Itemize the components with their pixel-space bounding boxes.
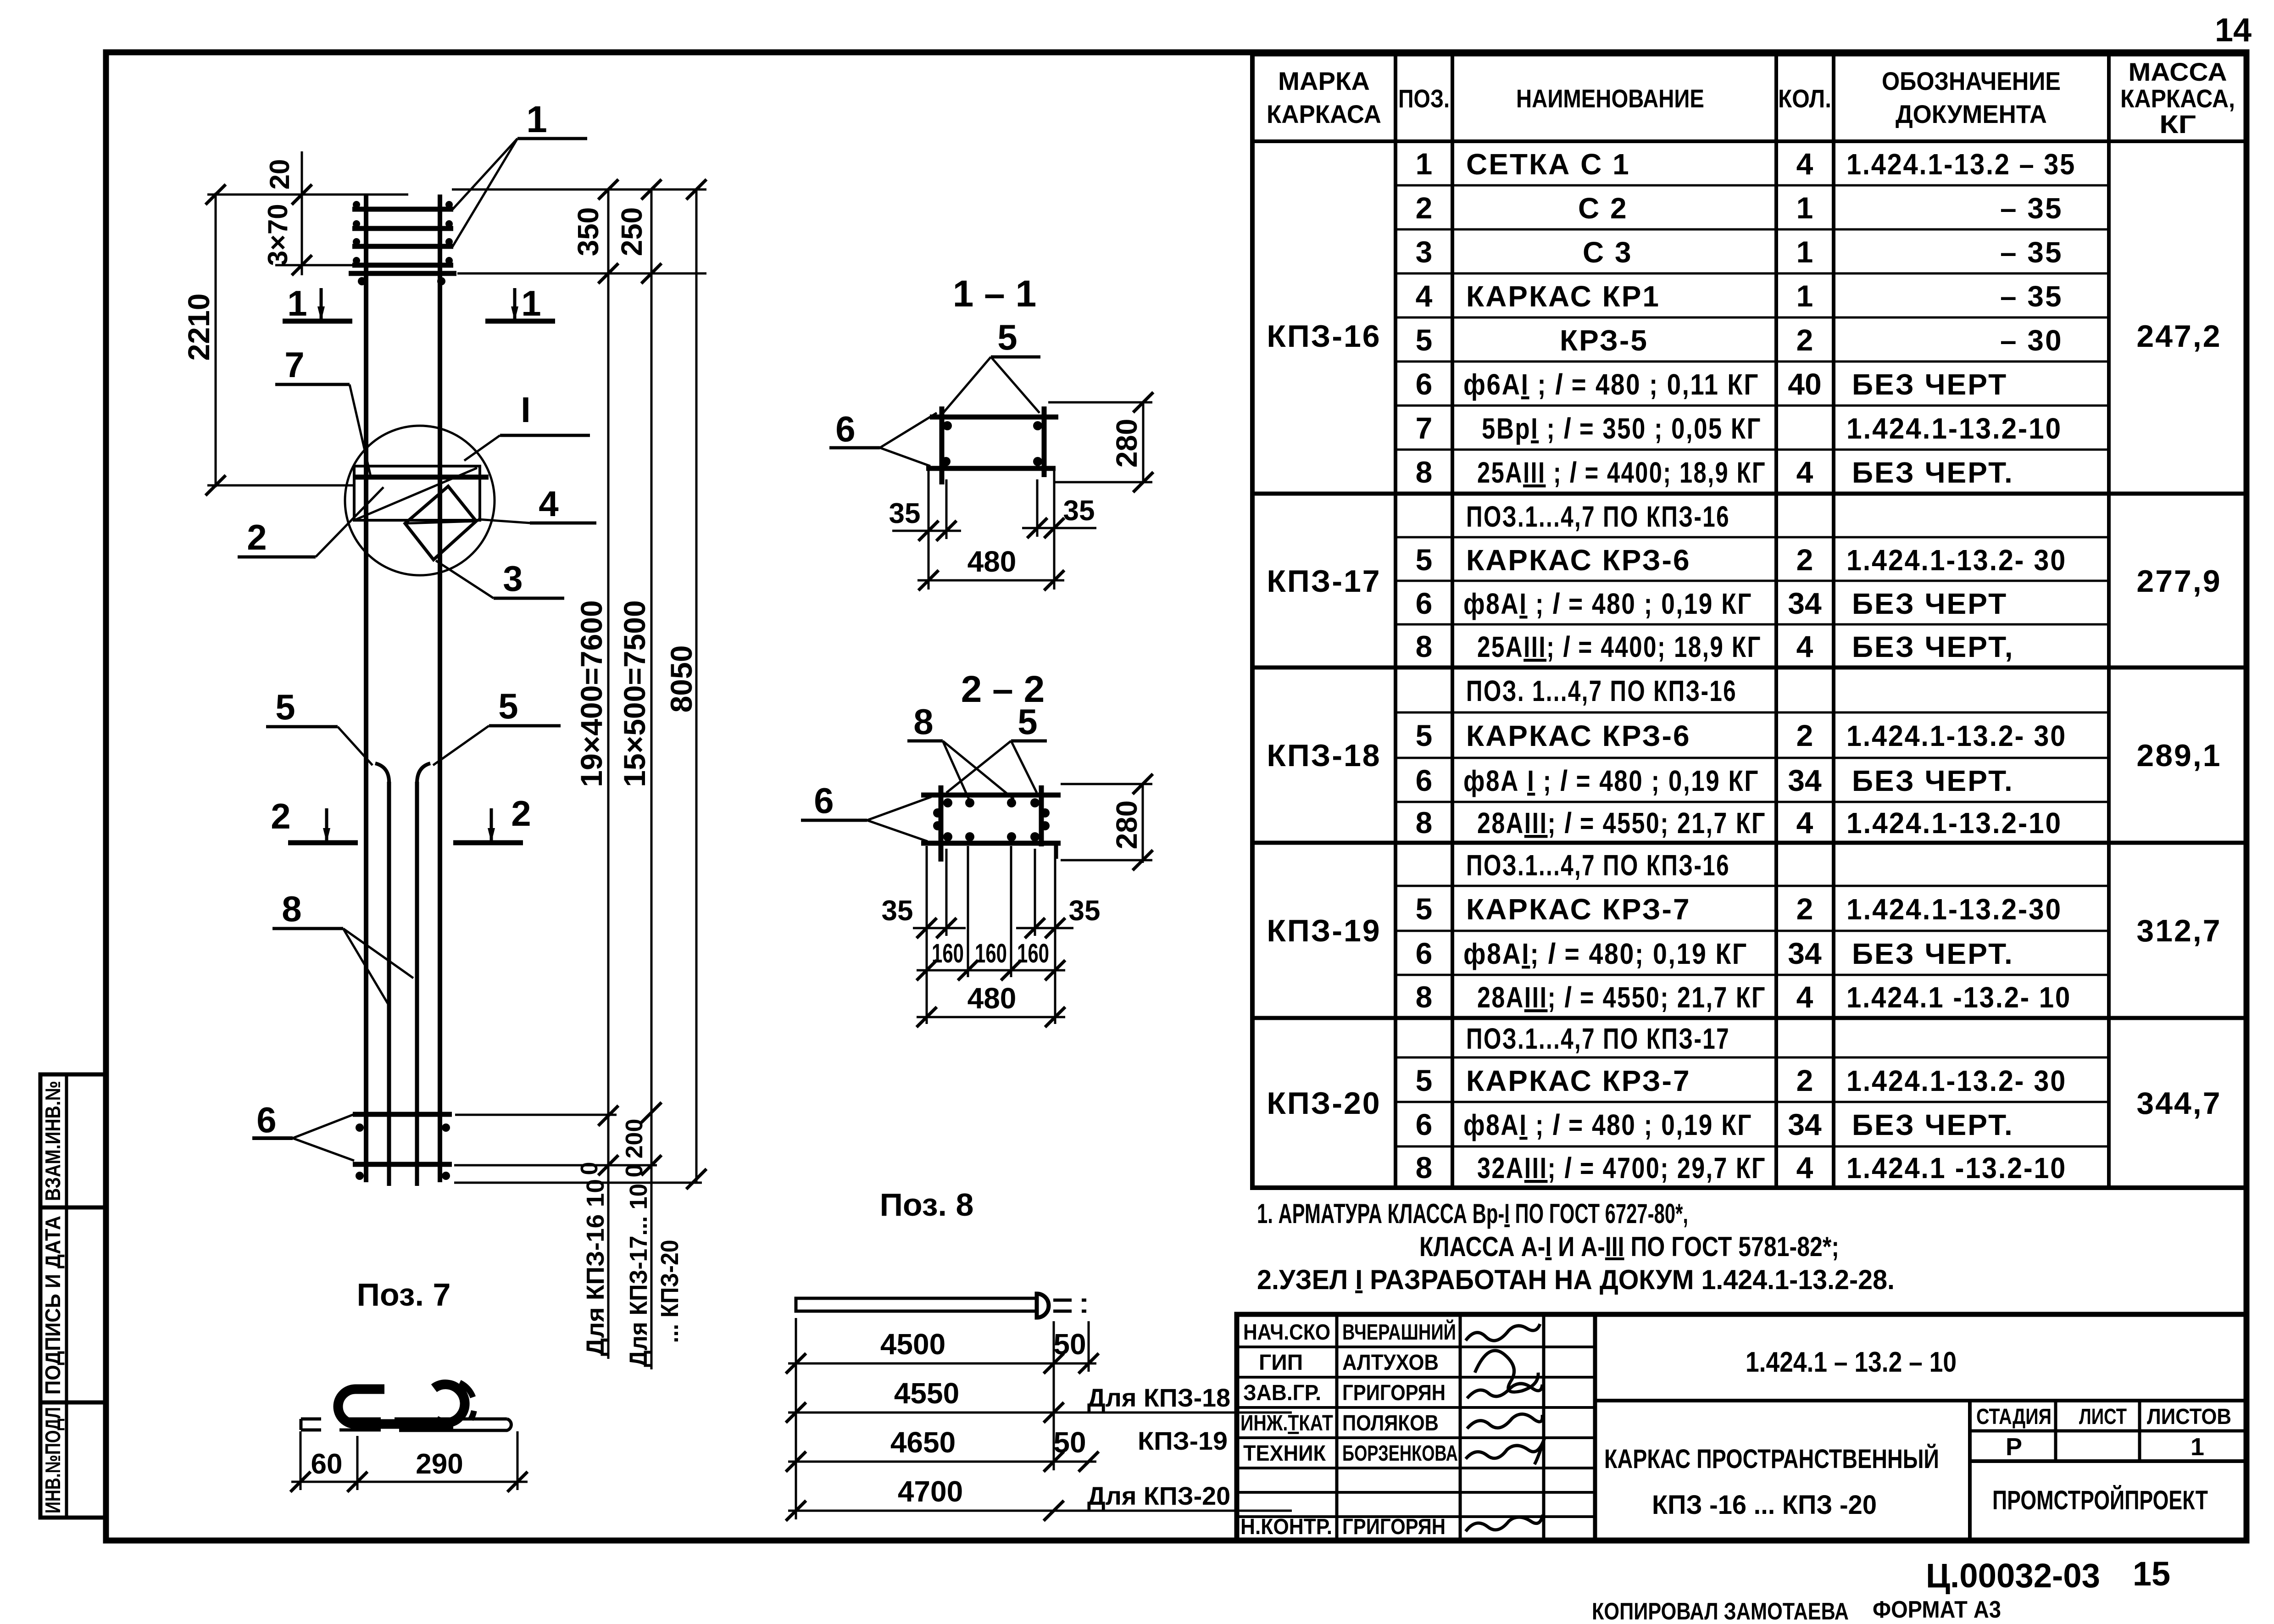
label 7 with leader [275,345,371,476]
svg-text:ф6АI ; l = 480 ; 0,11 КГ: ф6АI ; l = 480 ; 0,11 КГ [1463,368,1759,401]
svg-text:5: 5 [1017,701,1037,742]
section 1-1 stirrup frame [926,406,1058,484]
column elevation: main vertical bars [366,195,440,1182]
svg-text:6: 6 [1416,1107,1433,1141]
svg-text:1.424.1-13.2- 30: 1.424.1-13.2- 30 [1846,1064,2067,1097]
svg-text:НАЧ.СКО: НАЧ.СКО [1243,1320,1330,1345]
svg-text:ПОЗ.: ПОЗ. [1398,84,1450,113]
svg-text:3×70: 3×70 [262,204,293,266]
svg-text:2: 2 [271,796,290,836]
svg-text:5: 5 [1416,1063,1433,1097]
svg-text:5: 5 [1416,718,1433,752]
svg-text:Ц.00032-03: Ц.00032-03 [1926,1557,2100,1595]
svg-text:КПЗ-18: КПЗ-18 [1267,738,1381,773]
svg-text:5: 5 [1416,323,1433,357]
svg-text:1: 1 [1796,235,1813,269]
section mark 1 right [485,283,555,323]
section 2-2 labels 8 and 5 [907,701,1047,799]
svg-text:2: 2 [1796,1063,1813,1097]
svg-text:200: 200 [621,1119,648,1159]
svg-text:ПОЗ.1...4,7 ПО КПЗ-16: ПОЗ.1...4,7 ПО КПЗ-16 [1466,500,1730,533]
pos 8 dimension ladder [786,1318,1292,1521]
svg-text:МАРКА: МАРКА [1278,67,1370,95]
svg-text:БЕЗ ЧЕРТ.: БЕЗ ЧЕРТ. [1852,937,2014,970]
svg-text:ФОРМАТ А3: ФОРМАТ А3 [1873,1596,2001,1623]
svg-text:БЕЗ ЧЕРТ.: БЕЗ ЧЕРТ. [1852,1108,2014,1141]
svg-text:ЛИСТОВ: ЛИСТОВ [2147,1405,2231,1429]
dim line 350 / 19x400=7600 [572,179,618,1359]
svg-text:КПЗ-19: КПЗ-19 [1138,1426,1228,1455]
svg-text:1: 1 [1796,191,1813,225]
svg-text:4: 4 [1796,980,1813,1014]
wide bar at 350 level [349,273,456,285]
section 1-1 dims 35 [889,471,1096,590]
svg-text:2: 2 [511,793,531,834]
svg-text:19×400=7600: 19×400=7600 [574,600,608,787]
svg-text:БЕЗ ЧЕРТ,: БЕЗ ЧЕРТ, [1852,630,2014,663]
svg-text:1: 1 [1416,147,1433,181]
section 1-1 dim 480 [917,545,1064,590]
svg-text:280: 280 [1110,419,1143,468]
svg-text:1: 1 [526,99,547,140]
svg-text:КАРКАС КР1: КАРКАС КР1 [1466,280,1660,313]
svg-text:8: 8 [1416,806,1433,840]
left margin stamp strip [40,1074,106,1518]
svg-text:5: 5 [997,317,1017,357]
svg-text:3: 3 [1416,235,1433,269]
svg-text:0: 0 [621,1164,648,1178]
table header texts [1267,57,2235,139]
svg-text:АЛТУХОВ: АЛТУХОВ [1342,1351,1439,1375]
svg-text:4500: 4500 [880,1328,945,1361]
svg-text:КАРКАС КРЗ-6: КАРКАС КРЗ-6 [1466,719,1691,752]
svg-text:8050: 8050 [664,645,698,713]
svg-text:480: 480 [967,982,1017,1015]
svg-text:– 35: – 35 [2000,236,2063,269]
svg-text:32АIII; l = 4700; 29,7 КГ: 32АIII; l = 4700; 29,7 КГ [1477,1151,1766,1185]
svg-text:160: 160 [932,939,964,968]
svg-text:34: 34 [1788,586,1822,620]
svg-text:35: 35 [889,498,921,529]
label I with leader [464,389,590,461]
svg-text:ф8А I ; l = 480 ; 0,19 КГ: ф8А I ; l = 480 ; 0,19 КГ [1463,764,1759,797]
svg-text:40: 40 [1788,367,1821,401]
svg-text:1: 1 [287,283,307,323]
dim line 8050 [664,179,706,1189]
svg-text:480: 480 [967,545,1017,578]
label 4 with leader [478,484,596,524]
label 2 with leader [238,487,384,557]
svg-text:1.424.1-13.2-30: 1.424.1-13.2-30 [1846,893,2062,926]
svg-text:Для КПЗ-18: Для КПЗ-18 [1087,1383,1230,1412]
svg-text:50: 50 [1053,1328,1086,1361]
svg-text:344,7: 344,7 [2136,1086,2221,1121]
svg-text:1.424.1-13.2-10: 1.424.1-13.2-10 [1846,806,2062,840]
svg-text:2: 2 [1796,543,1813,577]
svg-text:1.424.1 – 13.2 – 10: 1.424.1 – 13.2 – 10 [1746,1346,1957,1378]
svg-text:280: 280 [1110,801,1143,850]
svg-text:КАРКАСА: КАРКАСА [1267,100,1381,128]
section 2-2 dim 480 [917,982,1065,1027]
svg-text:КАРКАС КРЗ-6: КАРКАС КРЗ-6 [1466,544,1691,577]
svg-text:ф8АI ; l = 480 ; 0,19 КГ: ф8АI ; l = 480 ; 0,19 КГ [1463,1108,1752,1141]
svg-text:4: 4 [539,484,558,524]
svg-text:Н.КОНТР.: Н.КОНТР. [1240,1515,1332,1539]
svg-text:ИНВ.№ПОДЛ: ИНВ.№ПОДЛ [41,1407,65,1513]
title block grid [1237,1314,2246,1540]
svg-text:247,2: 247,2 [2136,319,2221,354]
table pos and qty column digits [1416,147,1822,1185]
svg-text:СТАДИЯ: СТАДИЯ [1976,1405,2052,1429]
svg-text:4: 4 [1796,147,1813,181]
svg-text:60: 60 [311,1448,343,1480]
svg-text:КПЗ-17: КПЗ-17 [1267,564,1381,599]
svg-text:2210: 2210 [182,294,216,361]
detail circle I [345,426,495,575]
svg-text:БЕЗ ЧЕРТ.: БЕЗ ЧЕРТ. [1852,456,2014,489]
svg-text:ОБОЗНАЧЕНИЕ: ОБОЗНАЧЕНИЕ [1882,67,2061,95]
svg-text:ВЗАМ.ИНВ.№: ВЗАМ.ИНВ.№ [41,1081,65,1201]
svg-text:КПЗ-20: КПЗ-20 [1267,1086,1381,1121]
svg-text:Поз. 8: Поз. 8 [880,1187,974,1223]
svg-text:50: 50 [1053,1426,1086,1459]
svg-text:290: 290 [416,1448,463,1480]
svg-text:7: 7 [1416,411,1433,445]
svg-text:8: 8 [1416,455,1433,489]
svg-text:14: 14 [2215,12,2252,49]
svg-text:5: 5 [1416,543,1433,577]
svg-text:... КПЗ-20: ... КПЗ-20 [656,1240,684,1343]
svg-text:СЕТКА С 1: СЕТКА С 1 [1466,148,1630,181]
svg-text:4: 4 [1796,1151,1813,1185]
page number top right [2215,12,2252,49]
svg-text:ПОЗ.1...4,7 ПО КПЗ-17: ПОЗ.1...4,7 ПО КПЗ-17 [1466,1022,1730,1055]
right dim extension lines [452,189,706,1183]
section 2-2 dim 280 [1061,774,1153,870]
title block name [1604,1444,1939,1520]
bottom annotations [1592,1555,2170,1624]
svg-text:Для КПЗ-16 10: Для КПЗ-16 10 [582,1179,609,1356]
table mark and mass column texts [1267,319,2221,1121]
svg-text:1.424.1-13.2- 30: 1.424.1-13.2- 30 [1846,719,2067,752]
svg-text:8: 8 [1416,1151,1433,1185]
pos 8 bar drawing [796,1294,1086,1318]
svg-text:2.УЗЕЛ I РАЗРАБОТАН НА ДОКУМ 1: 2.УЗЕЛ I РАЗРАБОТАН НА ДОКУМ 1.424.1-13.… [1257,1264,1895,1295]
svg-text:ПОДПИСЬ И ДАТА: ПОДПИСЬ И ДАТА [41,1216,65,1395]
svg-text:8: 8 [913,701,933,742]
svg-text:1.424.1-13.2-10: 1.424.1-13.2-10 [1846,412,2062,445]
svg-text:1 – 1: 1 – 1 [953,273,1036,315]
svg-text:1.424.1-13.2 – 35: 1.424.1-13.2 – 35 [1846,148,2076,181]
svg-text:8: 8 [1416,980,1433,1014]
svg-text:1.424.1 -13.2- 10: 1.424.1 -13.2- 10 [1846,981,2071,1014]
table name column texts [1463,148,1766,1185]
svg-text:– 30: – 30 [2000,324,2063,357]
section 2-2 title [961,668,1045,710]
pos 8 detail title [880,1187,974,1223]
svg-text:ВЧЕРАШНИЙ: ВЧЕРАШНИЙ [1342,1319,1456,1345]
svg-text:КОПИРОВАЛ ЗАМОТАЕВА: КОПИРОВАЛ ЗАМОТАЕВА [1592,1598,1849,1624]
svg-text:Для КПЗ-17... 10: Для КПЗ-17... 10 [625,1184,652,1367]
section 2-2 stirrup frame [921,785,1061,862]
svg-text:КПЗ -16 ... КПЗ -20: КПЗ -16 ... КПЗ -20 [1652,1490,1877,1520]
svg-text:15: 15 [2133,1555,2170,1593]
svg-text:4: 4 [1796,629,1813,663]
svg-text:ТЕХНИК: ТЕХНИК [1243,1441,1326,1466]
svg-text:5: 5 [498,686,518,726]
svg-text:34: 34 [1788,1107,1822,1141]
svg-text:250: 250 [615,207,648,256]
svg-text:2: 2 [1796,323,1813,357]
svg-text:8: 8 [1416,629,1433,663]
section 1-1 label 6 [829,409,937,466]
svg-text:28АIII; l = 4550; 21,7 КГ: 28АIII; l = 4550; 21,7 КГ [1477,806,1766,840]
svg-text:5: 5 [1416,892,1433,926]
svg-text:35: 35 [1063,495,1095,527]
title block stage cells [1976,1405,2231,1515]
svg-text:ПРОМСТРОЙПРОЕКТ: ПРОМСТРОЙПРОЕКТ [1992,1485,2208,1515]
svg-text:25АIII ; l = 4400; 18,9 КГ: 25АIII ; l = 4400; 18,9 КГ [1477,456,1766,489]
svg-text:1.424.1-13.2- 30: 1.424.1-13.2- 30 [1846,544,2067,577]
svg-text:4550: 4550 [894,1377,959,1410]
svg-text:БЕЗ ЧЕРТ.: БЕЗ ЧЕРТ. [1852,764,2014,797]
section mark 2 left [271,796,358,843]
section 1-1 dim 280 [1048,392,1153,492]
svg-text:ф8АI; l = 480; 0,19 КГ: ф8АI; l = 480; 0,19 КГ [1463,937,1748,970]
svg-text:КАРКАС КРЗ-7: КАРКАС КРЗ-7 [1466,1064,1691,1097]
svg-text:34: 34 [1788,763,1822,797]
svg-text:5: 5 [275,687,295,727]
svg-text:КОЛ.: КОЛ. [1778,84,1831,113]
top mesh bars (pos 1) [352,201,453,265]
bottom tie bars (pos 6) [353,1114,452,1180]
svg-text:0: 0 [576,1162,603,1175]
svg-text:5ВрI ; l = 350 ; 0,05 КГ: 5ВрI ; l = 350 ; 0,05 КГ [1482,412,1762,445]
svg-text:277,9: 277,9 [2136,564,2221,599]
svg-text:БЕЗ ЧЕРТ: БЕЗ ЧЕРТ [1852,368,2007,401]
section mark 1 left [283,283,352,323]
svg-text:20: 20 [264,159,295,190]
svg-text:35: 35 [1069,895,1101,927]
label 6 with leaders [252,1100,355,1161]
svg-text:1: 1 [521,283,541,323]
svg-text:КАРКАС КРЗ-7: КАРКАС КРЗ-7 [1466,893,1691,926]
section 1-1 label 5 [943,317,1040,413]
pos 7 dims 60 290 [290,1431,528,1492]
svg-text:1.424.1 -13.2-10: 1.424.1 -13.2-10 [1846,1151,2067,1185]
svg-text:7: 7 [284,345,304,385]
svg-text:БЕЗ ЧЕРТ: БЕЗ ЧЕРТ [1852,587,2007,620]
svg-text:ПОЛЯКОВ: ПОЛЯКОВ [1342,1411,1439,1435]
section 2-2 dims 35 [882,895,1101,938]
svg-text:– 35: – 35 [2000,192,2063,225]
svg-text:ГИП: ГИП [1259,1351,1303,1375]
svg-text:– 35: – 35 [2000,280,2063,313]
svg-text:Для КПЗ-20: Для КПЗ-20 [1087,1481,1230,1510]
svg-text:КЛАССА А-I И А-III ПО ГОСТ 578: КЛАССА А-I И А-III ПО ГОСТ 5781-82*; [1419,1231,1839,1262]
signatures scribbles [1466,1324,1545,1531]
inner cage bars (pos 8) with hooks [375,763,430,1186]
svg-text:25АIII; l = 4400; 18,9 КГ: 25АIII; l = 4400; 18,9 КГ [1477,630,1762,663]
svg-text:6: 6 [1416,936,1433,970]
svg-text:6: 6 [835,409,855,449]
svg-text:НАИМЕНОВАНИЕ: НАИМЕНОВАНИЕ [1516,84,1704,113]
svg-text:1: 1 [2191,1433,2204,1461]
dim line 250 / 15x500=7500 [615,179,684,1369]
svg-text:4: 4 [1796,455,1813,489]
svg-text:3: 3 [503,558,523,599]
svg-text:1: 1 [1796,279,1813,313]
section 2-2 label 6 [801,780,931,841]
pos 7 detail title [357,1277,451,1313]
label 8 with leaders [272,889,413,1006]
svg-text:ДОКУМЕНТА: ДОКУМЕНТА [1896,100,2047,128]
svg-text:КРЗ-5: КРЗ-5 [1560,324,1648,357]
svg-text:34: 34 [1788,936,1822,970]
label 5 left with leader [266,687,373,765]
svg-text:Поз. 7: Поз. 7 [357,1277,451,1313]
svg-text:2: 2 [247,517,267,557]
svg-text:2: 2 [1796,718,1813,752]
notes below table [1257,1198,1895,1295]
svg-text:I: I [521,389,531,430]
svg-text:ГРИГОРЯН: ГРИГОРЯН [1342,1515,1446,1539]
svg-text:Р: Р [2006,1433,2022,1461]
svg-text:ПОЗ. 1...4,7 ПО КПЗ-16: ПОЗ. 1...4,7 ПО КПЗ-16 [1466,674,1737,707]
svg-text:КПЗ-19: КПЗ-19 [1267,913,1381,948]
svg-text:28АIII; l = 4550; 21,7 КГ: 28АIII; l = 4550; 21,7 КГ [1477,981,1766,1014]
svg-text:2: 2 [1796,892,1813,926]
dimension 20 and 3x70 top [262,151,358,275]
svg-text:ИНЖ.ТКАТ: ИНЖ.ТКАТ [1240,1411,1333,1435]
title block signature texts [1240,1319,1458,1539]
svg-text:160: 160 [1017,939,1049,968]
svg-text:312,7: 312,7 [2136,913,2221,948]
svg-text:6: 6 [814,780,834,821]
svg-text:С 3: С 3 [1583,236,1633,269]
svg-text:289,1: 289,1 [2136,738,2221,773]
svg-text:МАССА: МАССА [2129,57,2227,86]
section mark 2 right [453,793,531,843]
section 2-2 dims 160x3 [917,939,1065,980]
svg-text:ЗАВ.ГР.: ЗАВ.ГР. [1243,1381,1321,1405]
svg-text:6: 6 [1416,763,1433,797]
svg-text:6: 6 [1416,586,1433,620]
label 3 with leader [436,558,564,599]
svg-text:6: 6 [256,1100,276,1140]
svg-text:КАРКАСА,: КАРКАСА, [2120,84,2235,113]
pos 7 hook tie drawing [301,1383,511,1430]
section 1-1 title [953,273,1036,315]
svg-text:6: 6 [1416,367,1433,401]
label 1 with leaders [452,99,587,248]
svg-text:2: 2 [1416,191,1433,225]
svg-text:1. АРМАТУРА КЛАССА Вр-I ПО ГО: 1. АРМАТУРА КЛАССА Вр-I ПО ГОСТ 6727-80*… [1257,1198,1688,1229]
specification table grid [1252,54,2246,1188]
svg-text:4: 4 [1796,806,1813,840]
svg-text:8: 8 [282,889,301,929]
section 2-2 ext verticals [927,846,1055,1024]
svg-text:35: 35 [882,895,913,927]
svg-text:4650: 4650 [890,1426,956,1459]
svg-text:С 2: С 2 [1578,192,1628,225]
svg-text:ГРИГОРЯН: ГРИГОРЯН [1342,1381,1446,1405]
svg-text:160: 160 [975,939,1007,968]
svg-text:КАРКАС ПРОСТРАНСТВЕННЫЙ: КАРКАС ПРОСТРАНСТВЕННЫЙ [1604,1444,1939,1474]
label 5 right with leader [433,686,561,765]
svg-text:КПЗ-16: КПЗ-16 [1267,319,1381,354]
svg-text:4700: 4700 [898,1475,963,1508]
svg-text:4: 4 [1416,279,1433,313]
svg-text:БОРЗЕНКОВА: БОРЗЕНКОВА [1342,1441,1458,1466]
svg-text:ПОЗ.1...4,7 ПО КПЗ-16: ПОЗ.1...4,7 ПО КПЗ-16 [1466,849,1730,882]
dimension 2210 left [182,184,408,495]
svg-text:КГ: КГ [2159,110,2196,139]
svg-text:350: 350 [572,207,605,256]
table document column texts [1846,148,2076,1185]
title block document number [1746,1346,1957,1378]
svg-text:15×500=7500: 15×500=7500 [617,600,651,787]
svg-text:ф8АI ; l = 480 ; 0,19 КГ: ф8АI ; l = 480 ; 0,19 КГ [1463,587,1752,620]
svg-text:ЛИСТ: ЛИСТ [2079,1405,2127,1429]
